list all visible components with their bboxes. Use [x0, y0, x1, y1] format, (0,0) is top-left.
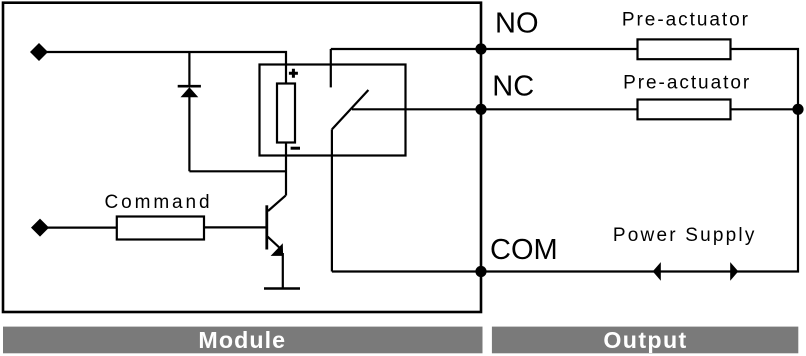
- svg-text:Power Supply: Power Supply: [613, 225, 757, 246]
- svg-text:COM: COM: [490, 234, 558, 266]
- svg-text:Pre-actuator: Pre-actuator: [623, 73, 751, 94]
- svg-text:Module: Module: [198, 327, 286, 353]
- svg-text:NC: NC: [492, 70, 534, 102]
- svg-text:Command: Command: [105, 192, 213, 213]
- svg-text:NO: NO: [495, 7, 539, 39]
- svg-text:Pre-actuator: Pre-actuator: [622, 9, 750, 30]
- svg-text:Output: Output: [603, 327, 687, 353]
